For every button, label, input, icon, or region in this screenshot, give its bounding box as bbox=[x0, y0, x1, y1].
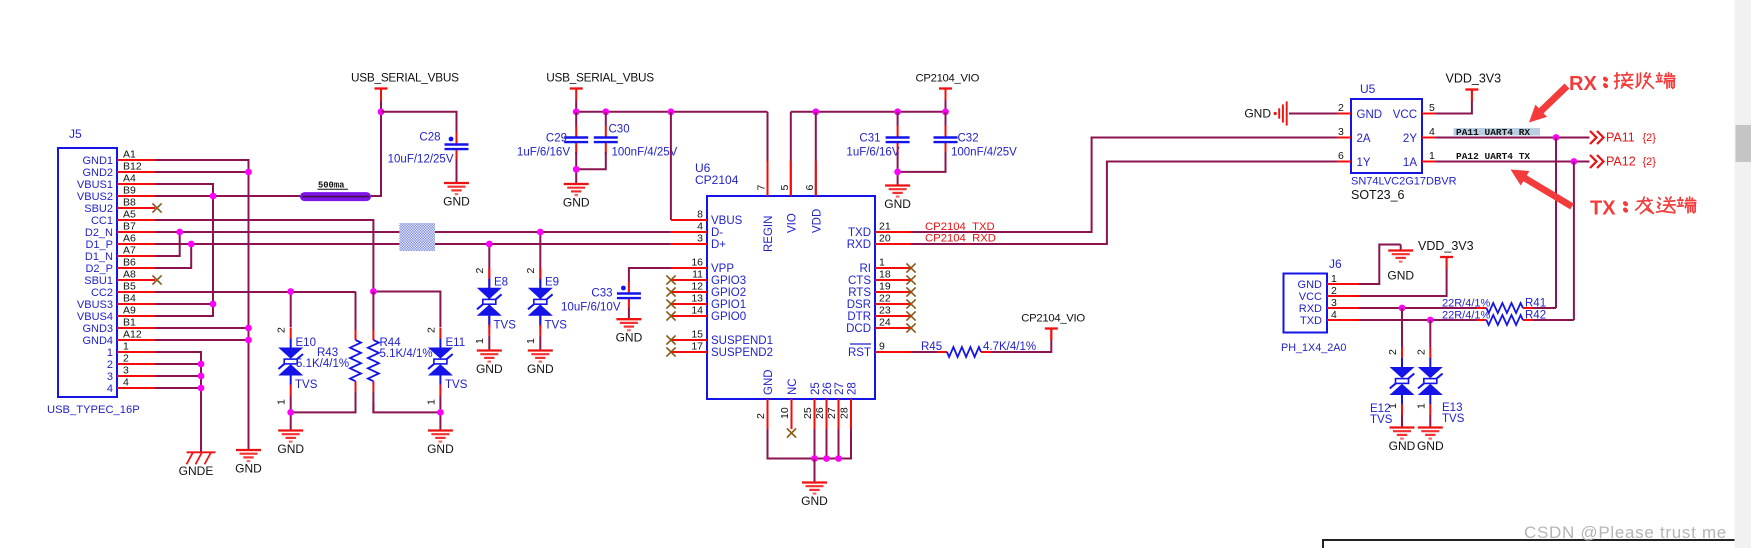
svg-text:12: 12 bbox=[691, 281, 703, 293]
svg-text:R45: R45 bbox=[921, 341, 942, 353]
svg-text:TVS: TVS bbox=[545, 320, 568, 332]
wire net CC1 from J5 A5 to R44/E11 bbox=[155, 220, 373, 292]
svg-text:10: 10 bbox=[779, 407, 791, 419]
svg-text:2: 2 bbox=[474, 268, 486, 274]
svg-text:9: 9 bbox=[879, 341, 885, 353]
power symbol CP2104_VIO (top) bbox=[916, 73, 980, 101]
svg-text:GND: GND bbox=[801, 494, 828, 508]
TVS diode E8 branch wire bbox=[488, 244, 490, 328]
no-connect X on U6 left pin at y=352 bbox=[666, 347, 675, 356]
junction GND B12 bbox=[245, 169, 252, 176]
junction E11 bottom bbox=[437, 409, 444, 416]
ground GND below E8 bbox=[476, 351, 503, 377]
annotation arrow to RX line bbox=[1529, 84, 1569, 123]
svg-text:GND: GND bbox=[1387, 269, 1414, 283]
svg-text:C32: C32 bbox=[958, 133, 979, 145]
svg-text:VCC: VCC bbox=[1393, 109, 1417, 121]
ground GND below E9 bbox=[527, 351, 554, 377]
junction VIO bus at C31 bbox=[894, 108, 901, 115]
wire E13 to ground bbox=[1429, 415, 1431, 428]
svg-text:11: 11 bbox=[692, 269, 703, 281]
svg-text:2: 2 bbox=[1331, 285, 1337, 297]
capacitor C31 1uF bbox=[846, 126, 909, 159]
wire net VBUS vertical bbox=[155, 184, 213, 316]
svg-text:23: 23 bbox=[879, 305, 891, 317]
svg-text:1: 1 bbox=[107, 347, 113, 359]
capacitor C33 10uF bbox=[561, 282, 641, 314]
svg-text:B5: B5 bbox=[123, 281, 136, 293]
svg-text:6: 6 bbox=[804, 185, 816, 191]
svg-text:5: 5 bbox=[779, 185, 791, 191]
svg-text:4: 4 bbox=[697, 221, 703, 233]
svg-text:1: 1 bbox=[1429, 150, 1435, 162]
svg-text:GND: GND bbox=[277, 442, 304, 456]
svg-text:CP2104_VIO: CP2104_VIO bbox=[1021, 313, 1085, 325]
wire U5 GND pin to chassis symbol bbox=[1289, 113, 1337, 115]
svg-text:3: 3 bbox=[1338, 126, 1344, 138]
svg-text:B7: B7 bbox=[123, 221, 136, 233]
wire C32 stem bbox=[945, 112, 947, 126]
ground GND below E13 bbox=[1417, 428, 1444, 454]
svg-text:PA12 UART4 TX: PA12 UART4 TX bbox=[1456, 151, 1530, 162]
svg-text:A6: A6 bbox=[123, 233, 136, 245]
svg-text:1: 1 bbox=[879, 257, 885, 269]
wire net GNDE shell pins bbox=[155, 352, 201, 452]
junction VBUS B4 bbox=[210, 301, 217, 308]
svg-text:SBU1: SBU1 bbox=[84, 275, 113, 287]
svg-text:B8: B8 bbox=[123, 197, 136, 209]
wire E8 to ground bbox=[488, 336, 490, 350]
junction VIO bus at C32 bbox=[942, 108, 949, 115]
wire E10 top branch bbox=[290, 292, 292, 328]
wire PA12 down to R42 bbox=[1573, 162, 1575, 321]
svg-text:J6: J6 bbox=[1329, 257, 1342, 271]
svg-text:CP2104: CP2104 bbox=[695, 173, 739, 187]
svg-text:D2_N: D2_N bbox=[85, 227, 113, 239]
wire R42 to PA12 vertical bbox=[1533, 319, 1574, 321]
wire E9 to ground bbox=[539, 336, 541, 350]
svg-text:26: 26 bbox=[822, 382, 834, 395]
wire net GND from J5 pins A1,B12,B1,A12 bbox=[155, 160, 249, 449]
svg-text:1: 1 bbox=[1415, 403, 1427, 409]
svg-text:USB_TYPEC_16P: USB_TYPEC_16P bbox=[47, 404, 140, 416]
svg-text:2: 2 bbox=[123, 353, 129, 365]
svg-text:CP2104_VIO: CP2104_VIO bbox=[916, 73, 980, 85]
svg-text:22: 22 bbox=[879, 293, 891, 305]
svg-text:2: 2 bbox=[426, 327, 438, 333]
resistor R44 5.1K bbox=[368, 292, 379, 413]
wire gnd rail to ground symbol bbox=[814, 459, 816, 483]
wire net USBDM D2_N/D1_N to CP2104 D- bbox=[155, 231, 671, 233]
differential-pair hatch marker on D+/D- wires bbox=[399, 223, 435, 251]
svg-text:28: 28 bbox=[839, 407, 851, 419]
svg-text:1: 1 bbox=[1331, 273, 1337, 285]
no-connect X on U6 right pin at y=280 bbox=[906, 275, 915, 284]
wire C30 stem bbox=[605, 112, 607, 126]
junction C31/C32 ground bbox=[894, 169, 901, 176]
svg-text:{2}: {2} bbox=[1643, 132, 1657, 144]
wire fuse to USB_SERIAL_VBUS bbox=[371, 101, 381, 196]
wire J6 VCC pin2 to VDD_3V3 bbox=[1359, 268, 1447, 296]
svg-text:15: 15 bbox=[691, 329, 703, 341]
svg-text:TXD: TXD bbox=[848, 227, 871, 239]
junction VIO bus at VDD bbox=[812, 108, 819, 115]
svg-text:GND: GND bbox=[1389, 439, 1416, 453]
svg-text:4: 4 bbox=[1429, 126, 1435, 138]
junction USB_SERIAL_VBUS C28 tap bbox=[378, 108, 385, 115]
svg-text:PA11 UART4 RX: PA11 UART4 RX bbox=[1456, 127, 1530, 138]
svg-text:D-: D- bbox=[711, 227, 723, 239]
no-connect X on J5 pin B8 SBU2 bbox=[152, 203, 161, 212]
svg-text:SUSPEND1: SUSPEND1 bbox=[711, 335, 773, 347]
resistor R42 22R bbox=[1476, 315, 1533, 325]
wire E10 bottom to ground bbox=[290, 412, 292, 430]
svg-text:3: 3 bbox=[123, 365, 129, 377]
no-connect X on U6 left pin at y=280 bbox=[666, 275, 675, 284]
capacitor C28 10uF bbox=[388, 132, 469, 166]
svg-text:VDD_3V3: VDD_3V3 bbox=[1446, 72, 1502, 86]
svg-text:22R/4/1%: 22R/4/1% bbox=[1442, 310, 1491, 322]
ground GND below J5 bbox=[235, 450, 262, 476]
svg-text:1: 1 bbox=[525, 338, 537, 344]
power symbol USB_SERIAL_VBUS (mid) bbox=[546, 71, 654, 101]
svg-text:17: 17 bbox=[691, 341, 703, 353]
port PA11 {2} bbox=[1590, 131, 1656, 145]
svg-text:RTS: RTS bbox=[848, 287, 871, 299]
svg-text:TXD: TXD bbox=[1300, 315, 1322, 327]
wire net CP2104_RXD bbox=[911, 162, 1337, 245]
connector J6 PH_1X4_2A0 bbox=[1281, 257, 1359, 354]
svg-text:19: 19 bbox=[879, 281, 891, 293]
junction C29/C30 ground bbox=[573, 166, 580, 173]
svg-text:B9: B9 bbox=[123, 185, 136, 197]
svg-text:2: 2 bbox=[276, 327, 288, 333]
svg-text:26: 26 bbox=[814, 407, 826, 419]
IC U6 CP2104 bbox=[671, 161, 911, 429]
svg-text:DTR: DTR bbox=[847, 311, 871, 323]
ground GND below C31 bbox=[884, 186, 911, 212]
junction bus at C30 bbox=[602, 108, 609, 115]
no-connect X on U6 left pin at y=292 bbox=[666, 287, 675, 296]
svg-text:3: 3 bbox=[107, 371, 113, 383]
svg-text:1uF/6/16V: 1uF/6/16V bbox=[846, 147, 899, 159]
wire R41 to PA11 vertical bbox=[1533, 307, 1556, 309]
svg-text:27: 27 bbox=[826, 407, 838, 419]
svg-text:TVS: TVS bbox=[295, 379, 318, 391]
wire U5 VCC to VDD_3V3 bbox=[1436, 101, 1472, 114]
wire net PA12 from U5 1A bbox=[1436, 161, 1590, 163]
svg-text:PA11: PA11 bbox=[1606, 131, 1635, 145]
svg-text:GPIO2: GPIO2 bbox=[711, 287, 746, 299]
wire C31/C32 bottoms to ground bbox=[898, 152, 946, 172]
wire shell pin 4 bbox=[155, 387, 201, 389]
svg-text:10uF/12/25V: 10uF/12/25V bbox=[388, 154, 454, 166]
no-connect X on U6 pin 10 NC bbox=[787, 428, 796, 437]
svg-text:2: 2 bbox=[1387, 349, 1399, 355]
annotation arrow to TX line bbox=[1511, 170, 1574, 210]
TVS diode E11 bbox=[428, 328, 453, 396]
svg-text:A1: A1 bbox=[123, 149, 136, 161]
svg-text:C33: C33 bbox=[591, 288, 612, 300]
svg-text:VBUS2: VBUS2 bbox=[77, 191, 113, 203]
svg-text:25: 25 bbox=[802, 407, 814, 419]
svg-text:18: 18 bbox=[879, 269, 891, 281]
no-connect X on U6 right pin at y=268 bbox=[906, 263, 915, 272]
svg-text:VDD: VDD bbox=[811, 209, 823, 233]
junction gnd rail 26 bbox=[823, 455, 830, 462]
svg-text:U5: U5 bbox=[1360, 82, 1376, 96]
svg-text:VBUS4: VBUS4 bbox=[77, 311, 113, 323]
power symbol CP2104_VIO (at R45) bbox=[1021, 313, 1085, 341]
svg-text:GND3: GND3 bbox=[82, 323, 113, 335]
junction GNDE 3 bbox=[198, 373, 205, 380]
svg-text:1Y: 1Y bbox=[1357, 157, 1371, 169]
junction USBDP at E8 bbox=[486, 241, 493, 248]
no-connect X on U6 right pin at y=304 bbox=[906, 299, 915, 308]
svg-text:A4: A4 bbox=[123, 173, 136, 185]
svg-text:RXD: RXD bbox=[847, 239, 871, 251]
wire shell pin 3 bbox=[155, 375, 201, 377]
svg-text:4: 4 bbox=[123, 377, 129, 389]
svg-text:GPIO0: GPIO0 bbox=[711, 311, 746, 323]
svg-text:SN74LVC2G17DBVR: SN74LVC2G17DBVR bbox=[1351, 176, 1457, 188]
wire D2_P up-join bbox=[155, 244, 191, 268]
svg-text:J5: J5 bbox=[69, 127, 82, 141]
svg-text:22R/4/1%: 22R/4/1% bbox=[1442, 298, 1491, 310]
junction bus at VBUS pin bbox=[668, 108, 675, 115]
svg-text:GND: GND bbox=[427, 442, 454, 456]
junction CC2 at E10 top bbox=[287, 288, 294, 295]
wire J6 RXD pin3 to R41 bbox=[1359, 307, 1486, 309]
wire J6 TXD pin4 to R42 bbox=[1359, 319, 1486, 321]
wire E10/R43 bottom rail bbox=[291, 396, 356, 413]
wire VPP to C33 bbox=[629, 268, 671, 282]
junction GND A12 bbox=[245, 337, 252, 344]
fuse F 500ma bbox=[300, 181, 371, 202]
svg-text:VBUS3: VBUS3 bbox=[77, 299, 113, 311]
capacitor C32 100nF bbox=[934, 126, 1018, 159]
svg-text:7: 7 bbox=[756, 185, 768, 191]
svg-text:VPP: VPP bbox=[711, 263, 734, 275]
wire C29 stem bbox=[575, 112, 577, 126]
svg-text:CC2: CC2 bbox=[91, 287, 113, 299]
svg-text:1: 1 bbox=[123, 341, 129, 353]
svg-text:{2}: {2} bbox=[1643, 156, 1657, 168]
svg-text:24: 24 bbox=[879, 317, 891, 329]
svg-text:GND: GND bbox=[884, 197, 911, 211]
svg-text:GND: GND bbox=[1417, 439, 1444, 453]
svg-text:A9: A9 bbox=[123, 305, 136, 317]
svg-text:SUSPEND2: SUSPEND2 bbox=[711, 347, 773, 359]
svg-text:DSR: DSR bbox=[847, 299, 871, 311]
wire net CP2104_TXD bbox=[911, 138, 1337, 233]
svg-text:C28: C28 bbox=[419, 132, 440, 144]
wire PA11 down to R41 bbox=[1555, 138, 1557, 309]
wire REGIN vertical bbox=[767, 112, 769, 161]
svg-text:1: 1 bbox=[474, 338, 486, 344]
svg-text:D1_P: D1_P bbox=[85, 239, 113, 251]
browser scrollbar bbox=[1735, 0, 1751, 548]
resistor R45 4.7K bbox=[937, 347, 991, 357]
svg-text:5.1K/4/1%: 5.1K/4/1% bbox=[296, 358, 349, 370]
svg-text:D1_N: D1_N bbox=[85, 251, 113, 263]
annotation text TX:transmitter (Chinese) bbox=[1590, 197, 1696, 220]
svg-text:TVS: TVS bbox=[1442, 413, 1465, 425]
resistor R43 5.1K bbox=[350, 292, 361, 413]
ground GND below E12 bbox=[1389, 428, 1416, 454]
svg-text:E11: E11 bbox=[446, 337, 466, 349]
svg-text:C29: C29 bbox=[546, 133, 567, 145]
svg-text:1A: 1A bbox=[1403, 157, 1417, 169]
svg-text:25: 25 bbox=[810, 382, 822, 395]
svg-text:GND: GND bbox=[527, 362, 554, 376]
ground GND below C29 bbox=[563, 184, 590, 210]
svg-text:21: 21 bbox=[879, 221, 891, 233]
no-connect X on U6 right pin at y=292 bbox=[906, 287, 915, 296]
svg-text:B6: B6 bbox=[123, 257, 136, 269]
svg-text:TVS: TVS bbox=[494, 320, 517, 332]
wire D1_N up-join bbox=[155, 232, 180, 256]
TVS diode E9 branch wire bbox=[539, 232, 541, 328]
ground GNDE chassis symbol bbox=[179, 452, 216, 478]
svg-text:A7: A7 bbox=[123, 245, 136, 257]
svg-text:4: 4 bbox=[107, 383, 113, 395]
svg-text:14: 14 bbox=[691, 305, 703, 317]
svg-text:B12: B12 bbox=[123, 161, 142, 173]
svg-text:GND: GND bbox=[443, 195, 470, 209]
ground GND below U6 bbox=[801, 483, 828, 509]
ground GND below C28 bbox=[443, 183, 470, 209]
svg-text:4: 4 bbox=[1331, 309, 1337, 321]
svg-text:NC: NC bbox=[787, 378, 799, 395]
svg-text:VIO: VIO bbox=[786, 213, 798, 233]
svg-text:SOT23_6: SOT23_6 bbox=[1351, 188, 1405, 202]
svg-text:VBUS: VBUS bbox=[711, 215, 743, 227]
wire J5 VBUS2 B9 to fuse bbox=[155, 195, 300, 197]
svg-text:1: 1 bbox=[1387, 403, 1399, 409]
svg-text:28: 28 bbox=[847, 382, 859, 395]
svg-text:100nF/4/25V: 100nF/4/25V bbox=[612, 147, 678, 159]
power symbol USB_SERIAL_VBUS (left) bbox=[351, 71, 459, 101]
svg-text:3: 3 bbox=[1331, 297, 1337, 309]
wire C31 stem bbox=[897, 112, 899, 126]
wire J5 GND2 B12 bbox=[155, 171, 249, 173]
svg-text:CSDN @Please trust me: CSDN @Please trust me bbox=[1524, 523, 1727, 542]
svg-text:E10: E10 bbox=[296, 337, 316, 349]
ground GND below C33 bbox=[616, 319, 643, 345]
svg-text:5: 5 bbox=[1429, 102, 1435, 114]
svg-text:2: 2 bbox=[1338, 102, 1344, 114]
junction gnd rail 27 bbox=[835, 455, 842, 462]
svg-text:VDD_3V3: VDD_3V3 bbox=[1418, 239, 1474, 253]
selection highlight on PA11 UART4 RX label bbox=[1454, 128, 1541, 136]
svg-text:RX: RX bbox=[1569, 73, 1597, 95]
ground GND chassis at U5 pin 2 bbox=[1244, 101, 1286, 125]
svg-text:DCD: DCD bbox=[846, 323, 871, 335]
svg-text:GND: GND bbox=[563, 196, 590, 210]
svg-text:VCC: VCC bbox=[1299, 291, 1322, 303]
svg-text:CP2104_RXD: CP2104_RXD bbox=[925, 233, 996, 245]
wire VDD vertical bbox=[815, 112, 817, 196]
svg-text:GND: GND bbox=[616, 331, 643, 345]
svg-text:GND2: GND2 bbox=[82, 167, 113, 179]
svg-text:2: 2 bbox=[1415, 349, 1427, 355]
TVS diode E12 bbox=[1390, 347, 1415, 415]
junction TXD at E13 bbox=[1427, 317, 1434, 324]
svg-text:2: 2 bbox=[755, 413, 767, 419]
svg-text:GND: GND bbox=[763, 369, 775, 395]
svg-text:5.1K/4/1%: 5.1K/4/1% bbox=[380, 348, 433, 360]
capacitor C30 100nF bbox=[594, 124, 678, 159]
wire CP2104_VIO bus bbox=[945, 101, 947, 112]
svg-text:CTS: CTS bbox=[848, 275, 871, 287]
svg-text:6: 6 bbox=[1338, 150, 1344, 162]
svg-text:RI: RI bbox=[860, 263, 872, 275]
svg-text:27: 27 bbox=[834, 382, 846, 395]
svg-text:USB_SERIAL_VBUS: USB_SERIAL_VBUS bbox=[351, 71, 459, 85]
no-connect X on J5 pin A8 SBU1 bbox=[152, 275, 161, 284]
svg-text:CC1: CC1 bbox=[91, 215, 113, 227]
wire VIO vertical bbox=[790, 112, 792, 196]
annotation text RX:receiver (Chinese) bbox=[1569, 73, 1675, 96]
wire J5 VBUS3 B4 bbox=[155, 303, 213, 305]
wire U6 ground rail bbox=[768, 429, 852, 459]
svg-text:USB_SERIAL_VBUS: USB_SERIAL_VBUS bbox=[546, 71, 654, 85]
svg-text:TVS: TVS bbox=[445, 379, 468, 391]
junction gnd rail 25 bbox=[811, 455, 818, 462]
svg-text:B1: B1 bbox=[123, 317, 136, 329]
wire C29/C30 bottoms to ground bbox=[576, 152, 606, 169]
wire CC1 horizontal to E11 bbox=[373, 292, 440, 328]
port PA12 {2} bbox=[1590, 155, 1656, 169]
svg-text:D2_P: D2_P bbox=[85, 263, 113, 275]
svg-text:GND: GND bbox=[1298, 279, 1323, 291]
svg-text:CP2104_TXD: CP2104_TXD bbox=[925, 221, 995, 233]
junction RXD at E12 bbox=[1399, 305, 1406, 312]
wire to C28 bbox=[381, 112, 457, 134]
wire VBUS pin8 vertical bbox=[670, 112, 672, 220]
svg-text:GPIO1: GPIO1 bbox=[711, 299, 746, 311]
no-connect X on U6 left pin at y=340 bbox=[666, 335, 675, 344]
svg-text:16: 16 bbox=[691, 257, 703, 269]
svg-text:PA12: PA12 bbox=[1606, 155, 1636, 169]
wire shell pin 2 bbox=[155, 363, 201, 365]
junction USBDM at E9 bbox=[537, 229, 544, 236]
svg-text:1: 1 bbox=[426, 399, 438, 405]
svg-text:E9: E9 bbox=[545, 277, 559, 289]
svg-text:2A: 2A bbox=[1357, 133, 1371, 145]
junction VBUS B9 bbox=[210, 193, 217, 200]
svg-text:2Y: 2Y bbox=[1403, 133, 1417, 145]
svg-text:PH_1X4_2A0: PH_1X4_2A0 bbox=[1281, 342, 1346, 354]
TVS diode E9 bbox=[528, 268, 553, 336]
connector J5 USB_TYPEC_16P bbox=[47, 127, 155, 416]
TVS diode E10 bbox=[278, 328, 303, 396]
svg-text:A12: A12 bbox=[123, 329, 142, 341]
wire E11 bottom to ground bbox=[439, 412, 441, 430]
svg-text:GNDE: GNDE bbox=[179, 464, 214, 478]
wire E12 branch bbox=[1401, 308, 1403, 347]
power symbol VDD_3V3 (top) bbox=[1446, 72, 1502, 102]
TVS diode E13 bbox=[1418, 347, 1443, 415]
wire RST to R45 bbox=[911, 351, 947, 353]
wire U6 pin27 drop bbox=[838, 429, 840, 459]
svg-text:1: 1 bbox=[276, 399, 288, 405]
svg-text:GPIO3: GPIO3 bbox=[711, 275, 746, 287]
wire J5 GND3 B1 bbox=[155, 327, 249, 329]
junction PA11 bbox=[1553, 134, 1560, 141]
wire net PA11 from U5 2Y bbox=[1436, 137, 1590, 139]
